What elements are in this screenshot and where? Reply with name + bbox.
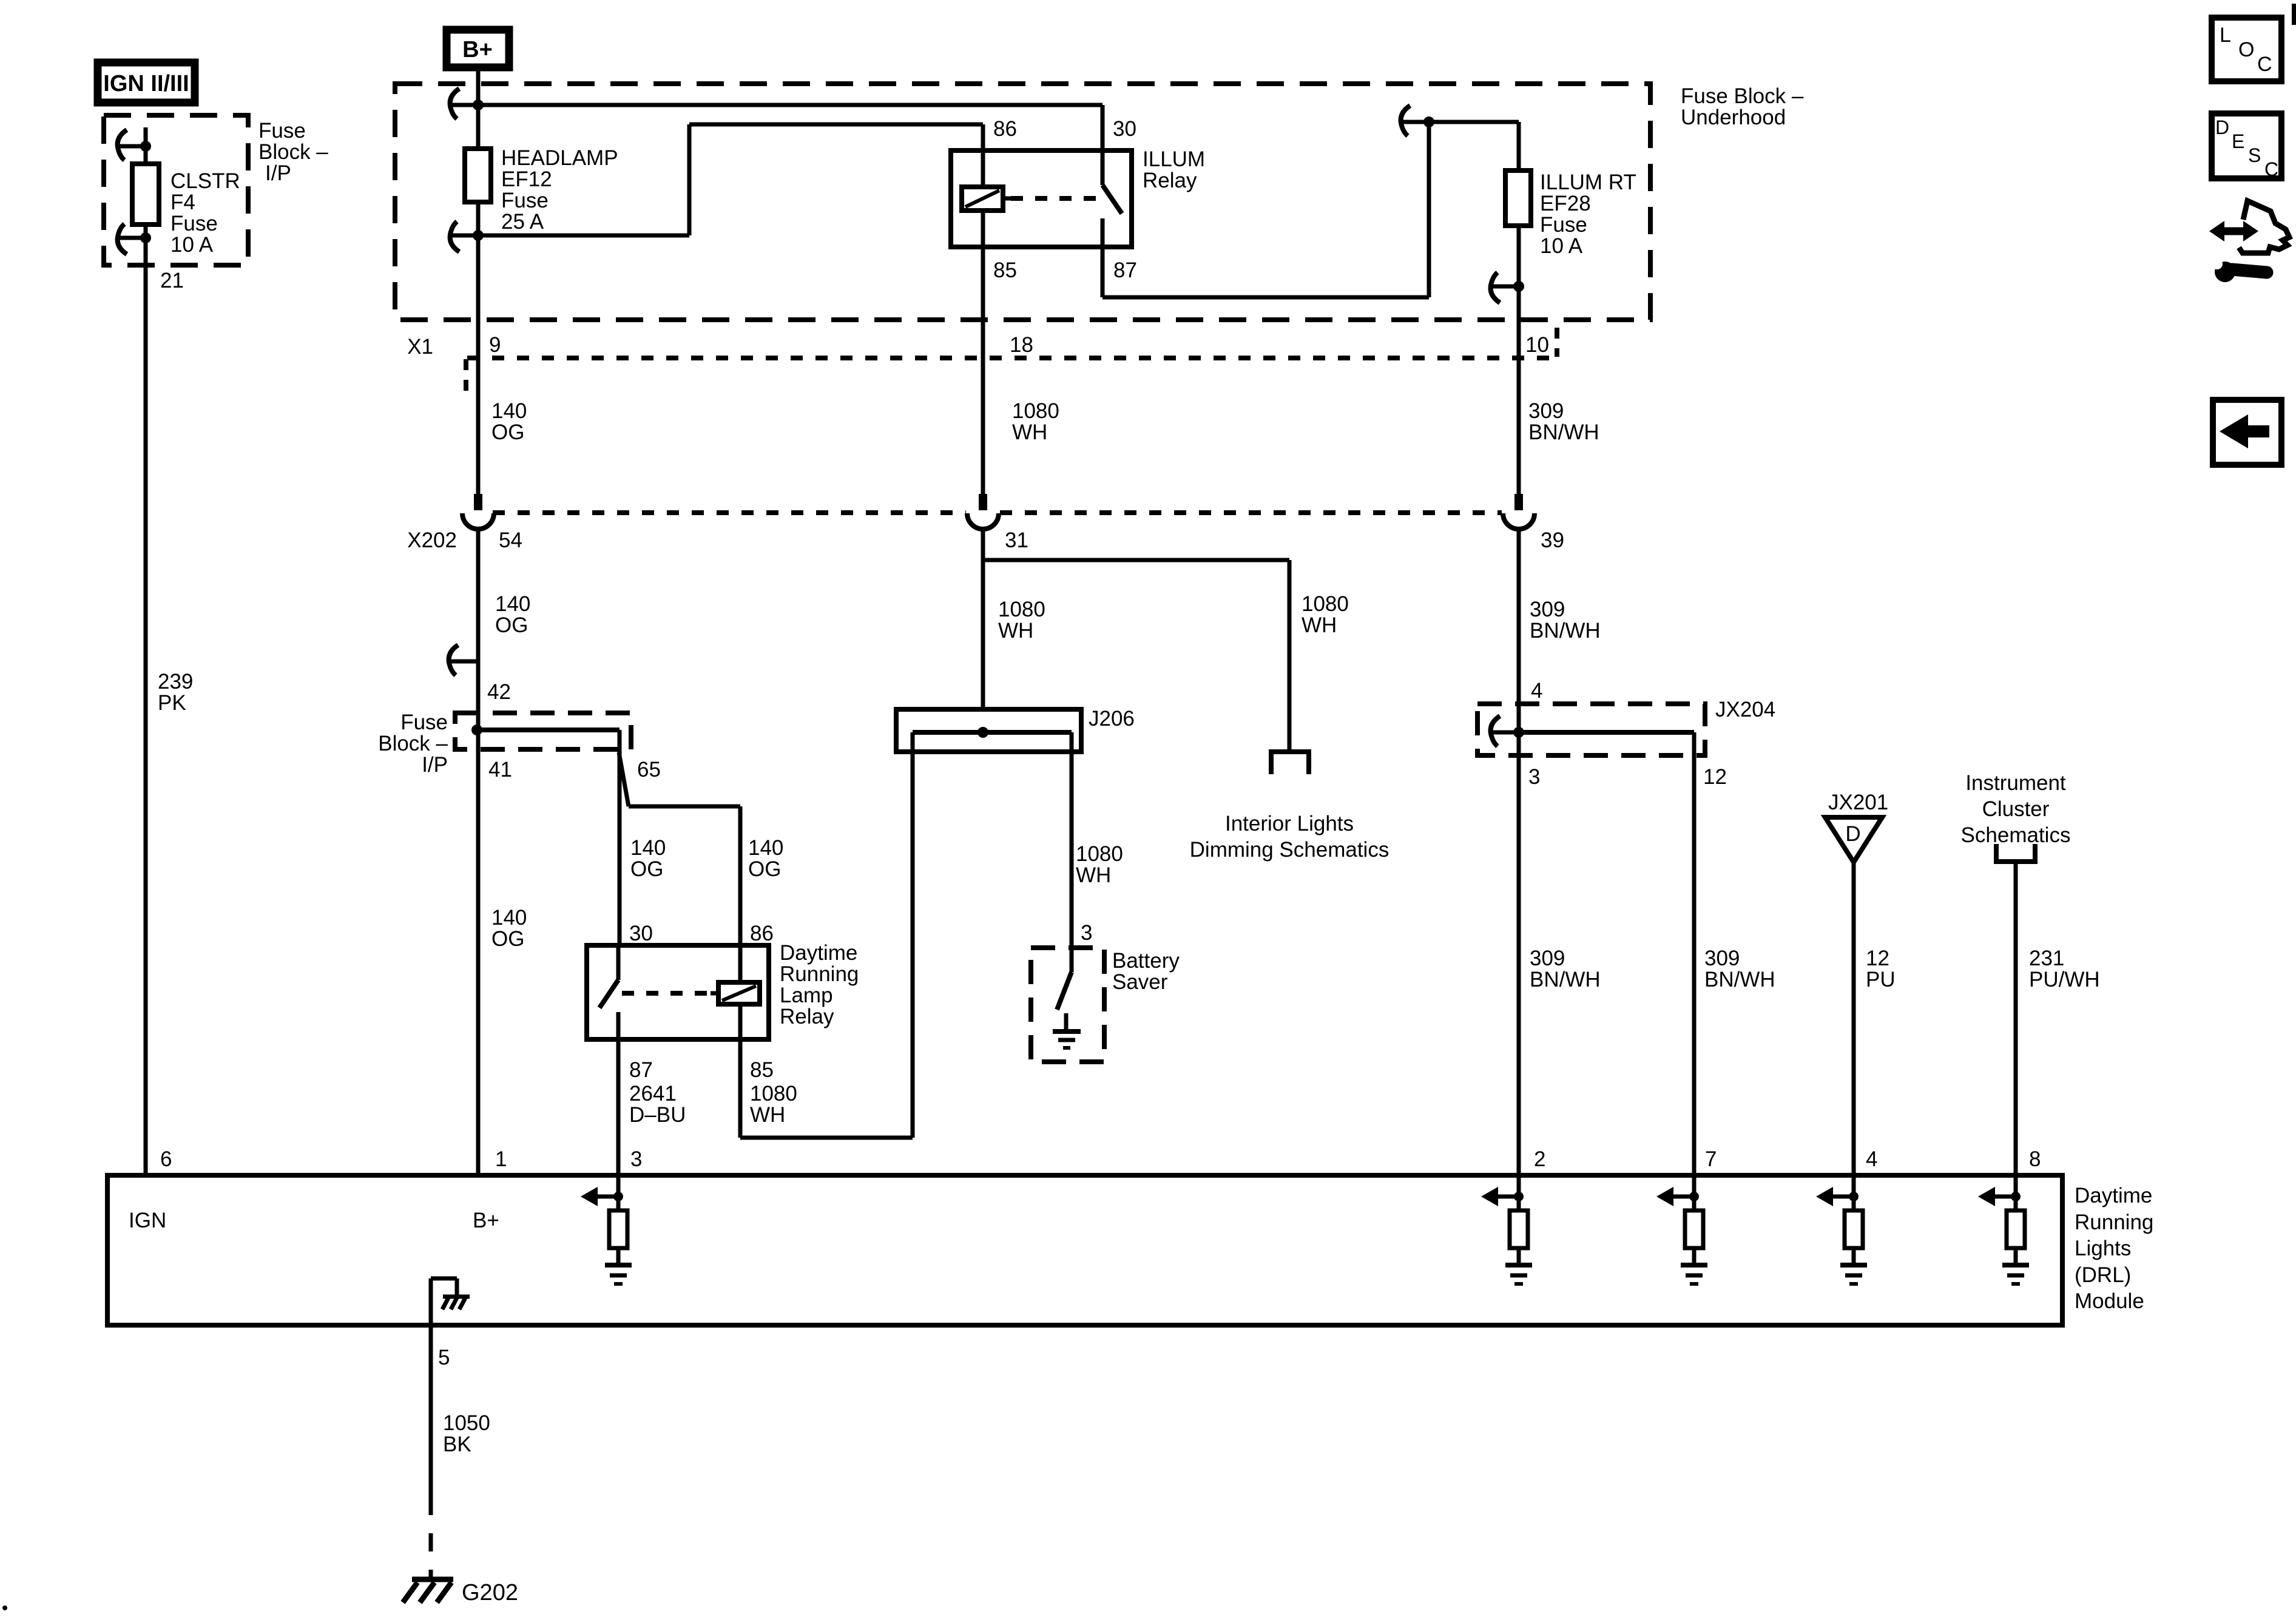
svg-text:Lamp: Lamp — [780, 984, 833, 1007]
svg-text:1080: 1080 — [1302, 592, 1349, 616]
svg-text:OG: OG — [491, 927, 524, 951]
svg-text:OG: OG — [491, 420, 524, 444]
svg-text:3: 3 — [1528, 765, 1540, 789]
svg-text:85: 85 — [750, 1058, 774, 1082]
svg-text:O: O — [2238, 38, 2254, 61]
svg-text:39: 39 — [1541, 528, 1564, 552]
svg-text:Running: Running — [2075, 1210, 2153, 1234]
svg-text:140: 140 — [630, 836, 666, 860]
svg-text:JX201: JX201 — [1828, 791, 1888, 814]
svg-text:25 A: 25 A — [501, 210, 544, 234]
svg-text:30: 30 — [629, 922, 653, 945]
svg-text:F4: F4 — [171, 191, 195, 214]
svg-text:ILLUM: ILLUM — [1143, 147, 1205, 171]
svg-text:IGN: IGN — [129, 1209, 166, 1232]
svg-text:PU/WH: PU/WH — [2029, 968, 2100, 991]
svg-text:BN/WH: BN/WH — [1704, 968, 1775, 991]
svg-text:140: 140 — [495, 592, 530, 616]
svg-text:12: 12 — [1703, 765, 1727, 789]
svg-text:BK: BK — [443, 1433, 471, 1456]
svg-text:I/P: I/P — [422, 753, 448, 777]
svg-text:(DRL): (DRL) — [2075, 1263, 2131, 1287]
svg-text:1: 1 — [495, 1147, 507, 1171]
svg-text:309: 309 — [1530, 598, 1565, 621]
svg-text:IGN II/III: IGN II/III — [103, 71, 189, 96]
svg-text:Block –: Block – — [258, 140, 328, 164]
svg-text:1080: 1080 — [998, 598, 1045, 621]
svg-text:6: 6 — [160, 1147, 172, 1171]
svg-text:EF28: EF28 — [1540, 192, 1591, 215]
svg-text:Fuse: Fuse — [501, 189, 549, 212]
svg-text:42: 42 — [487, 680, 511, 704]
svg-text:Fuse: Fuse — [171, 212, 218, 235]
svg-text:86: 86 — [993, 117, 1017, 141]
svg-text:Relay: Relay — [1143, 169, 1197, 192]
svg-text:HEADLAMP: HEADLAMP — [501, 146, 618, 170]
svg-text:1080: 1080 — [1012, 399, 1059, 423]
svg-text:OG: OG — [748, 857, 781, 881]
svg-text:21: 21 — [160, 269, 184, 292]
svg-text:S: S — [2248, 144, 2261, 166]
svg-text:BN/WH: BN/WH — [1530, 619, 1601, 643]
svg-text:Interior Lights: Interior Lights — [1225, 812, 1354, 836]
svg-text:G202: G202 — [462, 1580, 518, 1605]
svg-text:87: 87 — [1113, 258, 1137, 282]
svg-text:239: 239 — [158, 670, 193, 694]
svg-text:L: L — [2220, 24, 2231, 47]
svg-text:ILLUM RT: ILLUM RT — [1540, 170, 1636, 194]
svg-text:B+: B+ — [462, 37, 493, 62]
svg-text:Daytime: Daytime — [780, 941, 857, 965]
svg-text:Module: Module — [2075, 1289, 2144, 1313]
svg-text:OG: OG — [630, 857, 663, 881]
svg-text:30: 30 — [1113, 117, 1136, 141]
svg-text:Instrument: Instrument — [1965, 771, 2066, 795]
svg-text:12: 12 — [1866, 947, 1889, 970]
svg-text:4: 4 — [1866, 1147, 1877, 1171]
svg-text:8: 8 — [2029, 1147, 2041, 1171]
svg-text:Block –: Block – — [378, 732, 448, 755]
svg-text:140: 140 — [491, 399, 527, 423]
svg-text:Cluster: Cluster — [1982, 797, 2050, 821]
svg-text:D: D — [1845, 822, 1860, 846]
svg-text:2641: 2641 — [629, 1082, 677, 1106]
svg-text:Fuse: Fuse — [400, 711, 448, 734]
svg-text:1080: 1080 — [750, 1082, 797, 1106]
svg-text:87: 87 — [629, 1058, 653, 1082]
svg-text:WH: WH — [1012, 420, 1047, 444]
svg-text:Lights: Lights — [2075, 1237, 2131, 1260]
svg-text:E: E — [2232, 130, 2244, 152]
svg-text:309: 309 — [1530, 947, 1565, 970]
svg-text:86: 86 — [750, 922, 774, 945]
svg-text:X202: X202 — [407, 528, 457, 552]
svg-text:3: 3 — [1081, 921, 1092, 945]
svg-text:WH: WH — [750, 1103, 785, 1127]
svg-text:Fuse: Fuse — [258, 119, 306, 143]
svg-text:309: 309 — [1528, 399, 1564, 423]
svg-text:WH: WH — [1302, 613, 1337, 637]
svg-text:Saver: Saver — [1112, 970, 1168, 994]
svg-text:X1: X1 — [407, 335, 433, 359]
svg-text:2: 2 — [1534, 1147, 1545, 1171]
svg-text:D: D — [2215, 116, 2229, 138]
svg-text:CLSTR: CLSTR — [171, 169, 240, 193]
svg-text:309: 309 — [1704, 947, 1740, 970]
svg-text:18: 18 — [1010, 333, 1033, 357]
svg-text:3: 3 — [630, 1147, 642, 1171]
svg-text:Underhood: Underhood — [1681, 106, 1786, 129]
svg-text:JX204: JX204 — [1715, 698, 1775, 721]
svg-text:J206: J206 — [1089, 707, 1135, 731]
svg-text:7: 7 — [1705, 1147, 1717, 1171]
svg-text:Battery: Battery — [1112, 949, 1180, 973]
svg-text:140: 140 — [491, 906, 527, 930]
svg-text:WH: WH — [1076, 863, 1111, 887]
svg-text:C: C — [2264, 158, 2278, 180]
svg-text:EF12: EF12 — [501, 167, 552, 191]
svg-text:Fuse: Fuse — [1540, 213, 1587, 237]
svg-text:PK: PK — [158, 691, 186, 715]
svg-text:5: 5 — [438, 1346, 450, 1369]
svg-text:1050: 1050 — [443, 1411, 490, 1435]
svg-text:10 A: 10 A — [171, 233, 214, 257]
svg-text:4: 4 — [1531, 679, 1542, 703]
svg-text:PU: PU — [1866, 968, 1896, 991]
svg-text:31: 31 — [1005, 528, 1028, 552]
svg-text:Relay: Relay — [780, 1005, 834, 1028]
svg-text:9: 9 — [489, 333, 501, 357]
svg-text:65: 65 — [637, 758, 661, 781]
svg-text:85: 85 — [993, 258, 1017, 282]
svg-text:D–BU: D–BU — [629, 1103, 686, 1127]
svg-text:OG: OG — [495, 613, 528, 637]
svg-text:Dimming Schematics: Dimming Schematics — [1190, 838, 1389, 862]
svg-text:Running: Running — [780, 962, 859, 986]
svg-text:41: 41 — [488, 758, 512, 781]
svg-text:I/P: I/P — [265, 161, 291, 185]
svg-text:1080: 1080 — [1076, 842, 1123, 866]
svg-text:Daytime: Daytime — [2075, 1184, 2152, 1207]
svg-text:10 A: 10 A — [1540, 234, 1583, 258]
svg-text:140: 140 — [748, 836, 783, 860]
svg-text:Schematics: Schematics — [1961, 823, 2071, 847]
svg-text:BN/WH: BN/WH — [1530, 968, 1601, 991]
svg-text:C: C — [2257, 53, 2272, 76]
svg-text:231: 231 — [2029, 947, 2064, 970]
svg-text:10: 10 — [1525, 333, 1549, 357]
svg-text:BN/WH: BN/WH — [1528, 420, 1599, 444]
svg-text:Fuse Block –: Fuse Block – — [1681, 84, 1804, 108]
svg-text:54: 54 — [499, 528, 522, 552]
svg-text:WH: WH — [998, 619, 1033, 643]
svg-text:B+: B+ — [473, 1209, 499, 1232]
